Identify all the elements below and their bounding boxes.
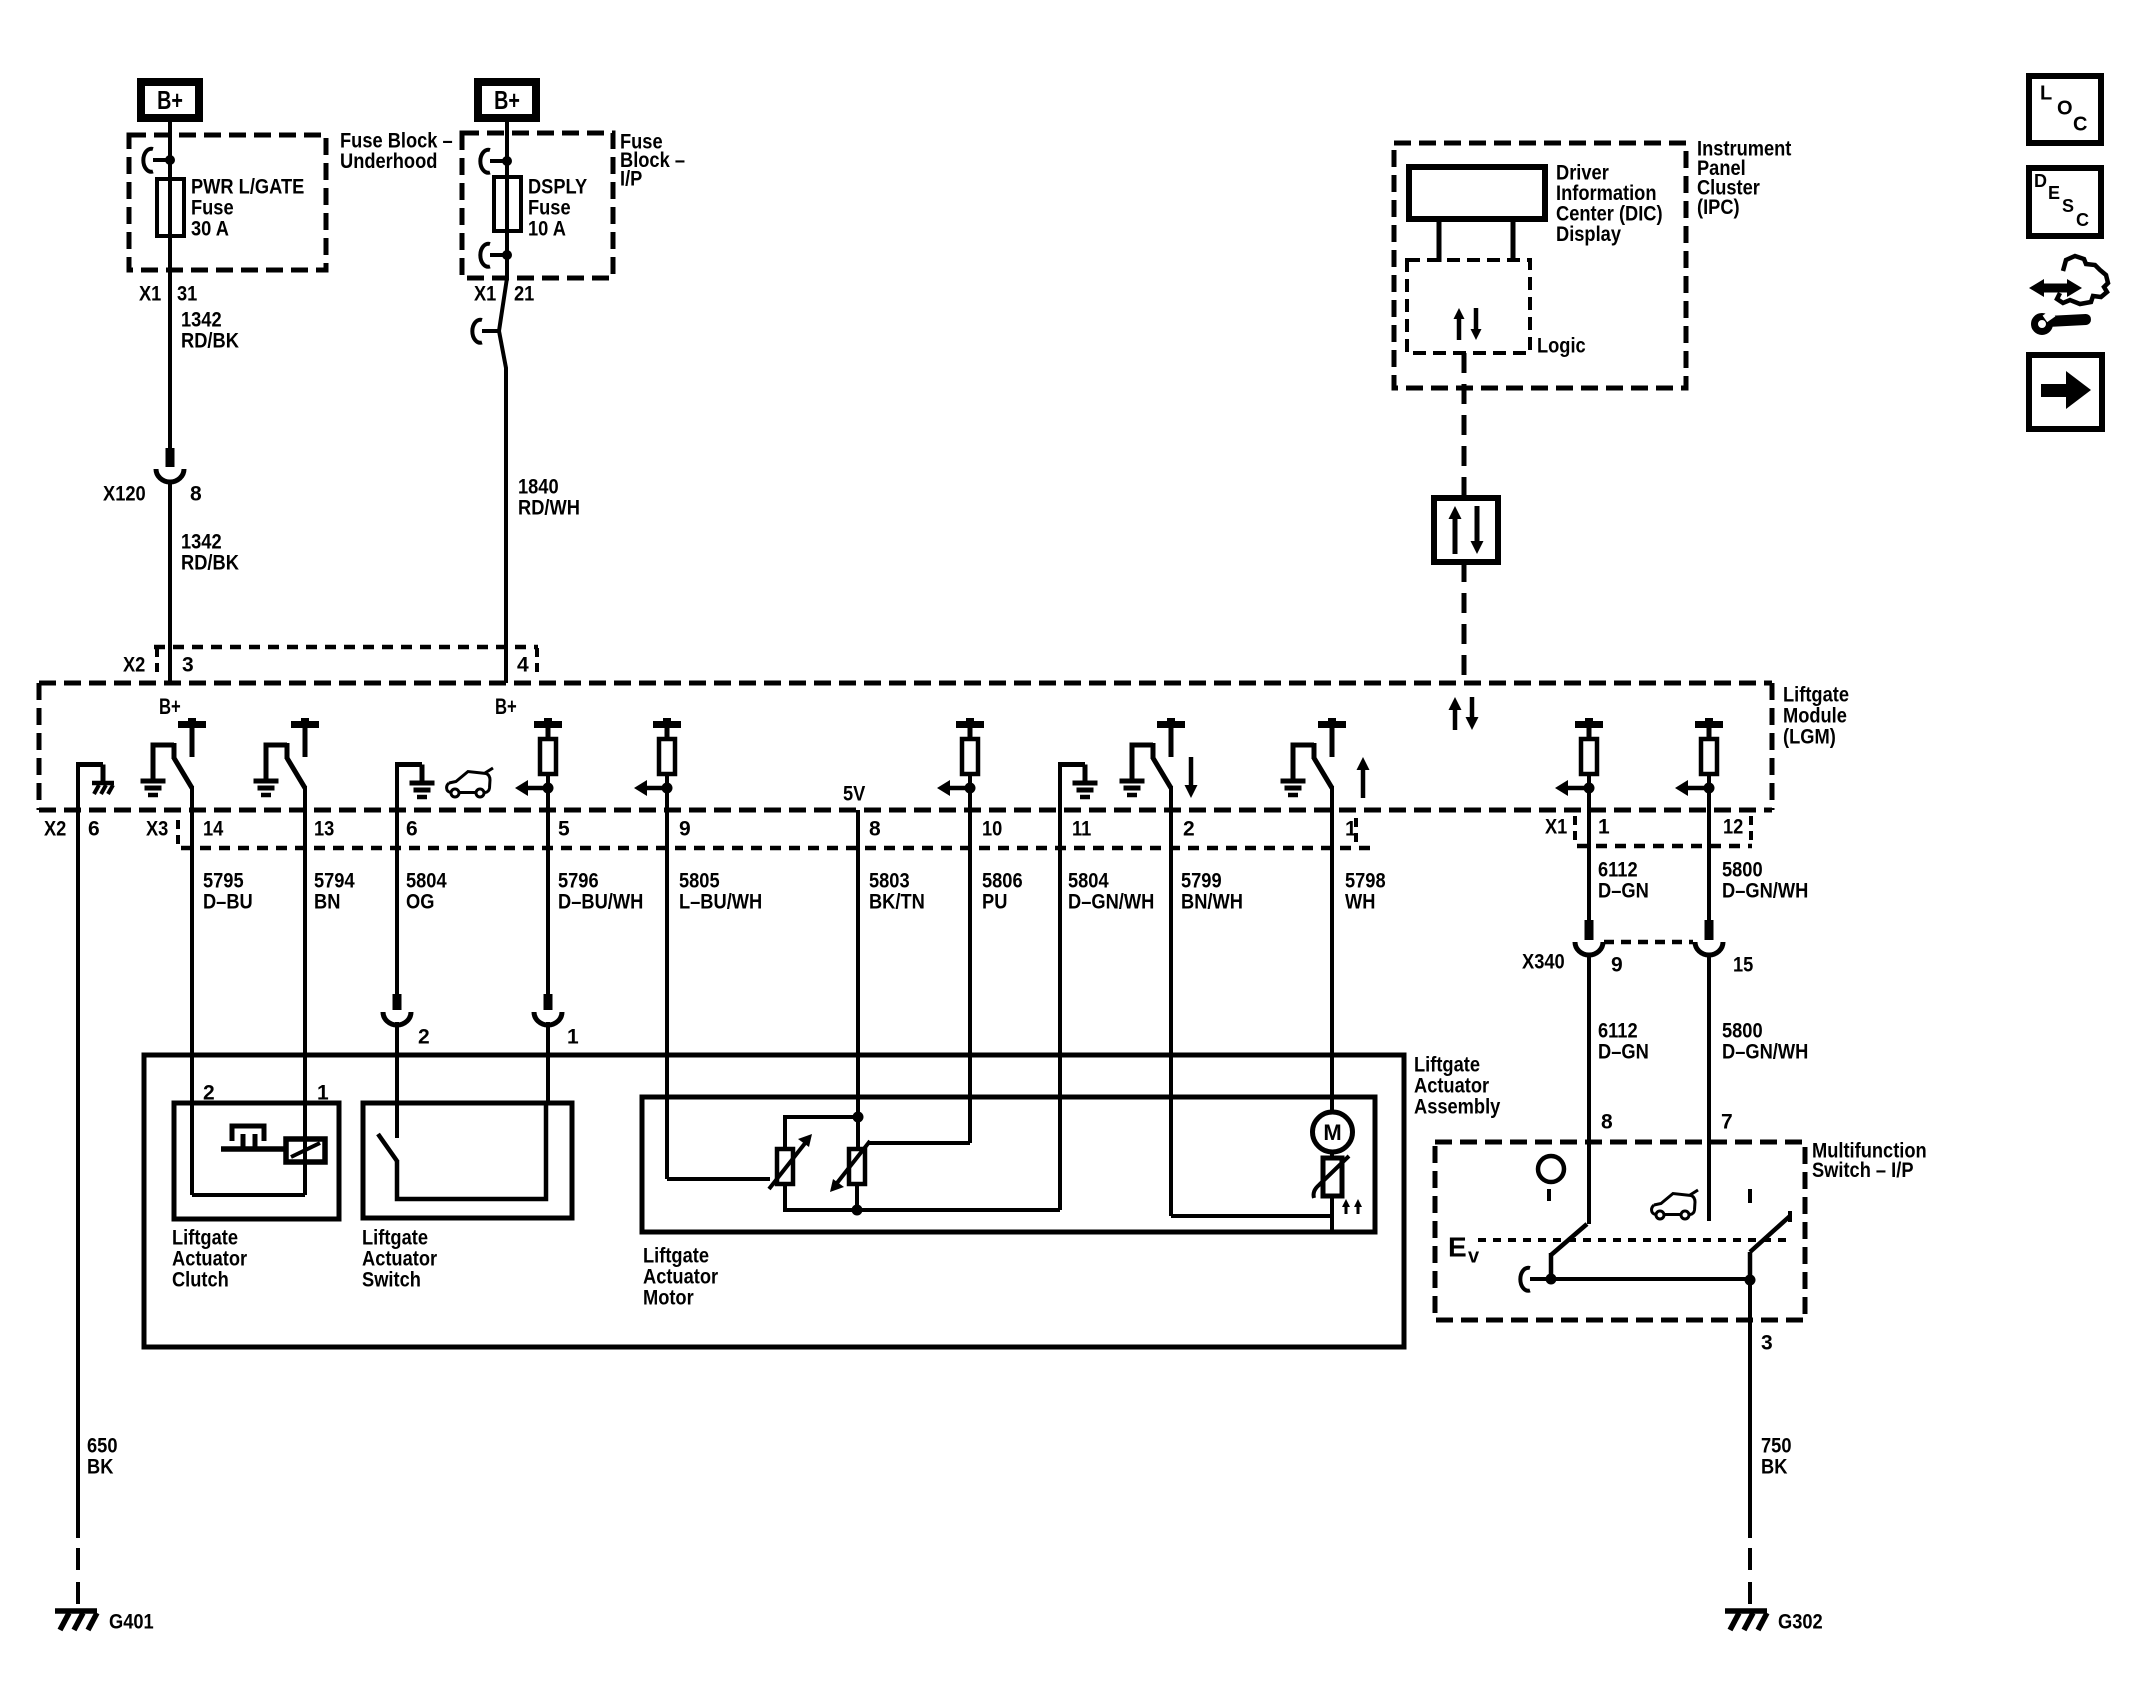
svg-text:Display: Display bbox=[1556, 223, 1621, 246]
svg-text:Liftgate: Liftgate bbox=[643, 1244, 709, 1267]
svg-text:X3: X3 bbox=[146, 817, 168, 840]
svg-text:L: L bbox=[2040, 83, 2052, 105]
svg-text:BN/WH: BN/WH bbox=[1181, 890, 1243, 913]
svg-text:5800: 5800 bbox=[1722, 1019, 1763, 1042]
svg-text:BN: BN bbox=[314, 890, 340, 913]
svg-text:X1: X1 bbox=[474, 282, 497, 305]
svg-text:Logic: Logic bbox=[1537, 334, 1586, 357]
svg-text:Liftgate: Liftgate bbox=[1414, 1053, 1480, 1076]
svg-text:B+: B+ bbox=[494, 85, 520, 115]
svg-text:5: 5 bbox=[558, 817, 570, 840]
svg-text:D: D bbox=[2034, 171, 2047, 191]
svg-text:650: 650 bbox=[87, 1434, 118, 1457]
svg-text:5806: 5806 bbox=[982, 869, 1023, 892]
svg-text:5798: 5798 bbox=[1345, 869, 1386, 892]
svg-text:X1: X1 bbox=[139, 282, 162, 305]
svg-text:15: 15 bbox=[1733, 953, 1754, 976]
svg-text:5V: 5V bbox=[843, 782, 865, 805]
svg-text:(IPC): (IPC) bbox=[1697, 196, 1740, 219]
svg-text:Switch – I/P: Switch – I/P bbox=[1812, 1159, 1914, 1182]
svg-text:5800: 5800 bbox=[1722, 858, 1763, 881]
svg-text:X1: X1 bbox=[1545, 815, 1568, 838]
svg-text:BK: BK bbox=[1761, 1455, 1787, 1478]
svg-text:BK: BK bbox=[87, 1455, 113, 1478]
svg-text:G401: G401 bbox=[109, 1610, 154, 1633]
svg-text:B+: B+ bbox=[495, 694, 517, 719]
svg-text:2: 2 bbox=[1183, 817, 1195, 840]
svg-text:5803: 5803 bbox=[869, 869, 910, 892]
svg-text:9: 9 bbox=[1611, 953, 1623, 976]
svg-text:v: v bbox=[1468, 1246, 1480, 1268]
svg-text:3: 3 bbox=[182, 653, 194, 676]
svg-text:Fuse: Fuse bbox=[528, 196, 571, 219]
svg-text:S: S bbox=[2062, 196, 2074, 216]
svg-text:BK/TN: BK/TN bbox=[869, 890, 925, 913]
svg-text:5804: 5804 bbox=[1068, 869, 1109, 892]
svg-text:6: 6 bbox=[88, 817, 100, 840]
svg-text:M: M bbox=[1323, 1120, 1341, 1145]
svg-text:31: 31 bbox=[177, 282, 198, 305]
svg-text:750: 750 bbox=[1761, 1434, 1792, 1457]
svg-text:1: 1 bbox=[1598, 815, 1610, 838]
svg-text:9: 9 bbox=[679, 817, 691, 840]
svg-text:D–GN/WH: D–GN/WH bbox=[1722, 879, 1808, 902]
svg-text:11: 11 bbox=[1072, 817, 1092, 840]
svg-text:1342: 1342 bbox=[181, 308, 222, 331]
svg-text:8: 8 bbox=[1601, 1110, 1613, 1133]
svg-text:14: 14 bbox=[203, 817, 224, 840]
svg-text:5794: 5794 bbox=[314, 869, 355, 892]
svg-text:D–BU: D–BU bbox=[203, 890, 253, 913]
svg-text:5796: 5796 bbox=[558, 869, 599, 892]
svg-text:D–GN: D–GN bbox=[1598, 879, 1649, 902]
svg-text:8: 8 bbox=[190, 482, 202, 505]
svg-text:Actuator: Actuator bbox=[172, 1247, 247, 1270]
svg-text:6112: 6112 bbox=[1598, 858, 1638, 881]
svg-text:Actuator: Actuator bbox=[362, 1247, 437, 1270]
svg-text:1: 1 bbox=[567, 1025, 579, 1048]
svg-text:X2: X2 bbox=[123, 653, 145, 676]
svg-text:5795: 5795 bbox=[203, 869, 244, 892]
svg-text:OG: OG bbox=[406, 890, 434, 913]
svg-text:PU: PU bbox=[982, 890, 1007, 913]
svg-text:Underhood: Underhood bbox=[340, 150, 437, 173]
svg-text:O: O bbox=[2057, 98, 2073, 120]
svg-text:Switch: Switch bbox=[362, 1268, 421, 1291]
svg-text:DSPLY: DSPLY bbox=[528, 175, 587, 198]
svg-text:6: 6 bbox=[406, 817, 418, 840]
svg-text:B+: B+ bbox=[157, 85, 183, 115]
svg-text:L–BU/WH: L–BU/WH bbox=[679, 890, 762, 913]
svg-text:(LGM): (LGM) bbox=[1783, 725, 1836, 748]
svg-text:Module: Module bbox=[1783, 704, 1847, 727]
svg-text:21: 21 bbox=[514, 282, 535, 305]
svg-text:1342: 1342 bbox=[181, 530, 222, 553]
svg-text:10: 10 bbox=[982, 817, 1002, 840]
svg-text:RD/WH: RD/WH bbox=[518, 496, 580, 519]
svg-text:1: 1 bbox=[317, 1081, 329, 1104]
svg-text:C: C bbox=[2076, 210, 2089, 230]
svg-text:RD/BK: RD/BK bbox=[181, 329, 239, 352]
svg-text:8: 8 bbox=[869, 817, 881, 840]
svg-text:5799: 5799 bbox=[1181, 869, 1222, 892]
svg-text:G302: G302 bbox=[1778, 1610, 1823, 1633]
svg-text:RD/BK: RD/BK bbox=[181, 551, 239, 574]
svg-text:Liftgate: Liftgate bbox=[362, 1226, 428, 1249]
svg-text:13: 13 bbox=[314, 817, 334, 840]
svg-text:2: 2 bbox=[418, 1025, 430, 1048]
svg-text:X2: X2 bbox=[44, 817, 66, 840]
svg-text:D–GN: D–GN bbox=[1598, 1040, 1649, 1063]
svg-text:D–BU/WH: D–BU/WH bbox=[558, 890, 643, 913]
svg-text:Actuator: Actuator bbox=[1414, 1074, 1489, 1097]
svg-text:Assembly: Assembly bbox=[1414, 1095, 1501, 1118]
svg-text:WH: WH bbox=[1345, 890, 1375, 913]
svg-text:D–GN/WH: D–GN/WH bbox=[1722, 1040, 1808, 1063]
svg-text:I/P: I/P bbox=[620, 167, 642, 190]
svg-text:PWR L/GATE: PWR L/GATE bbox=[191, 175, 304, 198]
svg-text:C: C bbox=[2073, 114, 2087, 136]
svg-text:1840: 1840 bbox=[518, 475, 559, 498]
svg-text:Clutch: Clutch bbox=[172, 1268, 229, 1291]
svg-text:7: 7 bbox=[1721, 1110, 1733, 1133]
svg-text:5804: 5804 bbox=[406, 869, 447, 892]
svg-text:3: 3 bbox=[1761, 1331, 1773, 1354]
svg-text:12: 12 bbox=[1723, 815, 1743, 838]
svg-text:E: E bbox=[1448, 1231, 1467, 1262]
svg-text:Actuator: Actuator bbox=[643, 1265, 718, 1288]
svg-text:2: 2 bbox=[203, 1081, 215, 1104]
svg-text:Fuse: Fuse bbox=[191, 196, 234, 219]
svg-text:X340: X340 bbox=[1522, 950, 1565, 973]
svg-text:6112: 6112 bbox=[1598, 1019, 1638, 1042]
svg-text:E: E bbox=[2048, 183, 2060, 203]
svg-text:Motor: Motor bbox=[643, 1286, 694, 1309]
svg-text:D–GN/WH: D–GN/WH bbox=[1068, 890, 1154, 913]
svg-text:10 A: 10 A bbox=[528, 217, 566, 240]
svg-text:B+: B+ bbox=[159, 694, 181, 719]
svg-text:Liftgate: Liftgate bbox=[1783, 683, 1849, 706]
svg-text:5805: 5805 bbox=[679, 869, 720, 892]
svg-text:4: 4 bbox=[517, 653, 529, 676]
svg-text:Liftgate: Liftgate bbox=[172, 1226, 238, 1249]
svg-text:X120: X120 bbox=[103, 482, 146, 505]
svg-text:30 A: 30 A bbox=[191, 217, 229, 240]
